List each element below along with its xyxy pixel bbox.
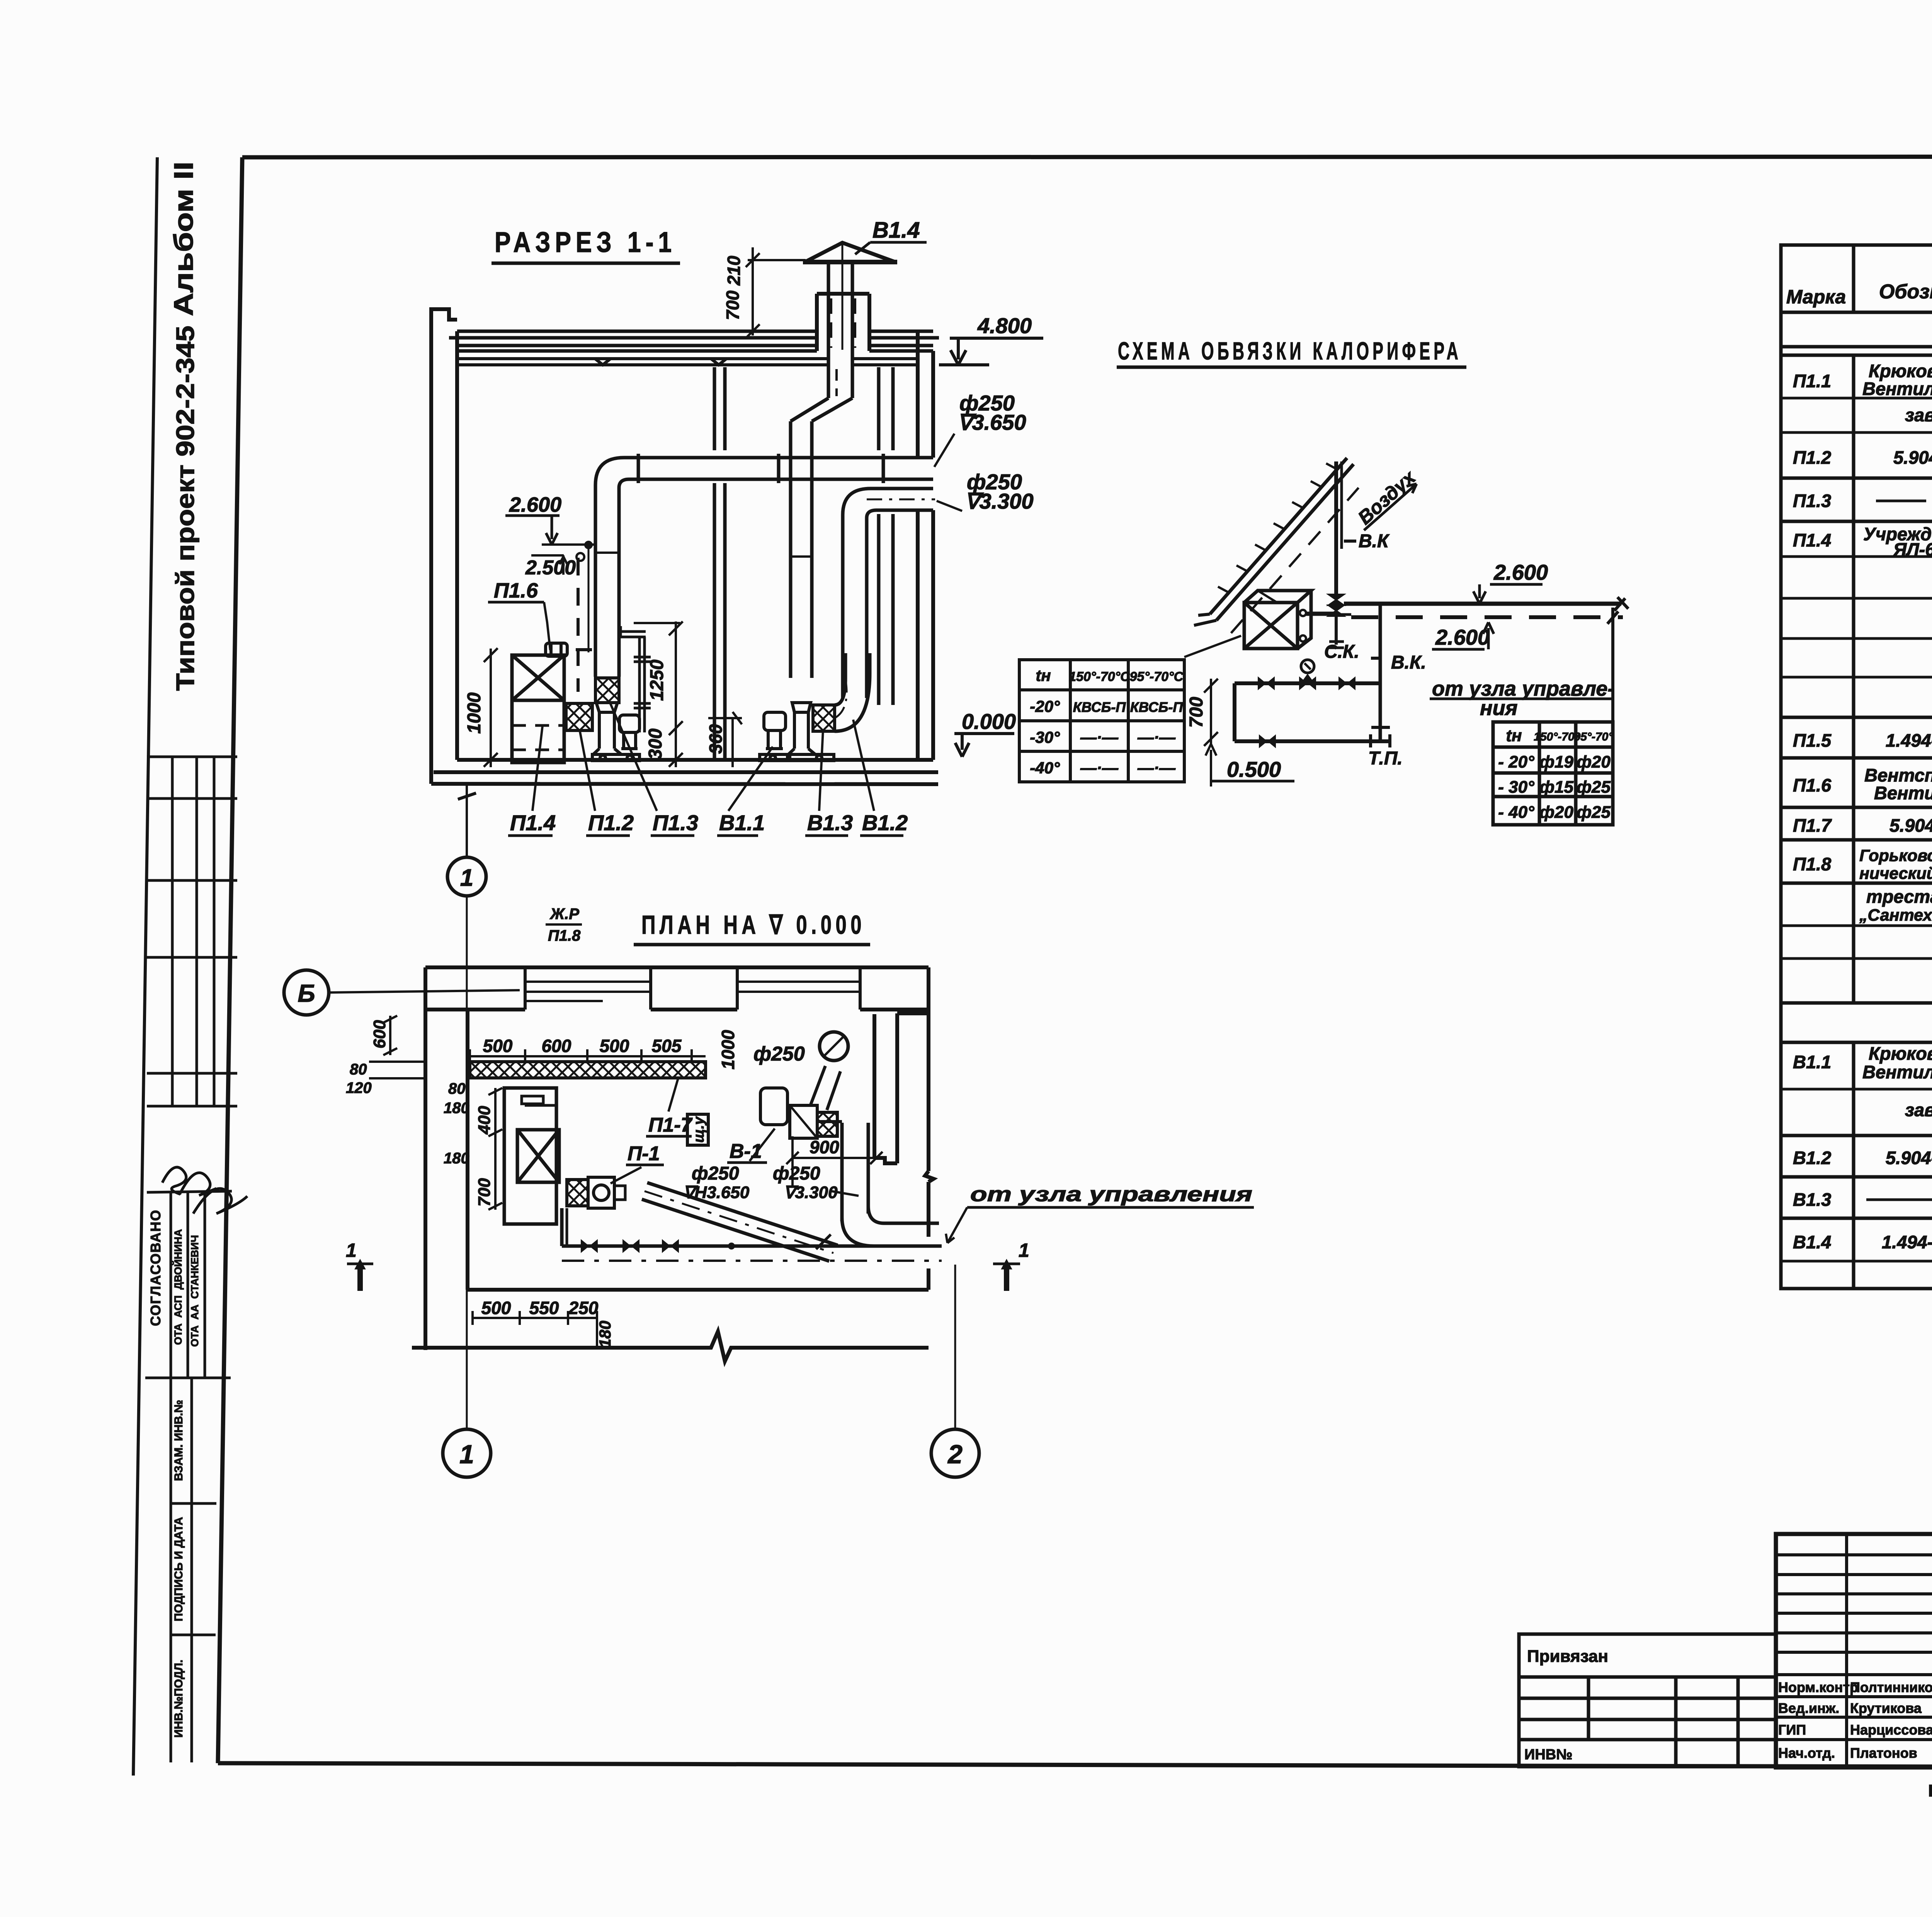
signature rows labels	[1778, 1679, 1932, 1761]
svg-text:щ.у: щ.у	[691, 1116, 707, 1143]
svg-text:360: 360	[706, 724, 726, 754]
axis circle 1	[447, 857, 486, 896]
corridor wall	[874, 1013, 929, 1163]
svg-text:180: 180	[444, 1150, 469, 1167]
svg-text:600: 600	[370, 1020, 389, 1049]
row В1.2	[1793, 1147, 1932, 1168]
svg-text:-20°: -20°	[1030, 697, 1060, 715]
svg-text:ОТА АСП ДВОЙНИНА: ОТА АСП ДВОЙНИНА	[172, 1229, 184, 1345]
diagonal duct	[642, 1183, 838, 1261]
svg-text:80: 80	[448, 1080, 466, 1097]
svg-text:1: 1	[1019, 1239, 1029, 1261]
svg-text:КВСБ-П: КВСБ-П	[1130, 699, 1184, 715]
axis line 1	[466, 897, 468, 1429]
slope hatch ticks	[1218, 463, 1337, 592]
svg-text:700: 700	[475, 1178, 494, 1207]
fan unit П1.1	[592, 703, 639, 761]
table leader	[1184, 636, 1241, 657]
svg-text:—·—: —·—	[1137, 728, 1176, 746]
frame top line	[242, 157, 1932, 157]
svg-text:Альбом II: Альбом II	[168, 162, 199, 316]
roof slab	[449, 331, 939, 351]
plan left wall	[425, 967, 468, 1350]
section mark left	[347, 1259, 373, 1291]
svg-text:250: 250	[568, 1298, 599, 1318]
title block outer	[1776, 1534, 1932, 1767]
section mark right	[993, 1259, 1020, 1291]
table heat selection	[1019, 660, 1184, 782]
svg-text:Привязан: Привязан	[1527, 1647, 1608, 1666]
svg-text:1000: 1000	[464, 692, 485, 734]
gauge circle	[1301, 660, 1314, 673]
row В1.4	[1793, 1231, 1932, 1252]
roof slope	[1194, 458, 1359, 633]
roof exhaust shaft casing	[817, 294, 869, 351]
pump П1.1 plan	[567, 1177, 625, 1208]
axis circle Б	[284, 970, 329, 1015]
unit П1.4 calorifer box	[512, 655, 564, 763]
svg-text:2: 2	[947, 1440, 963, 1469]
return pipe dashed	[1351, 615, 1623, 619]
svg-text:600: 600	[542, 1036, 571, 1056]
svg-text:П-1: П-1	[628, 1142, 660, 1165]
svg-text:95°-70°: 95°-70°	[1574, 730, 1614, 743]
svg-text:СОГЛАСОВАНО: СОГЛАСОВАНО	[148, 1209, 163, 1326]
row П1.1	[1793, 360, 1932, 399]
svg-text:нический з-д N1: нический з-д N1	[1859, 864, 1932, 883]
svg-text:от узла управле-: от узла управле-	[1432, 677, 1614, 700]
unit П-1 box	[504, 1088, 559, 1224]
svg-text:В1.3: В1.3	[807, 810, 853, 835]
row П1.8	[1793, 846, 1932, 883]
spec table grid	[1781, 245, 1932, 1289]
svg-text:Платонов: Платонов	[1850, 1745, 1917, 1761]
svg-text:ИНВ.№ПОДЛ.: ИНВ.№ПОДЛ.	[172, 1660, 185, 1738]
panel щ.у	[687, 1114, 708, 1145]
svg-text:180: 180	[596, 1321, 614, 1348]
svg-text:—·—: —·—	[1080, 728, 1119, 746]
svg-text:П1.2: П1.2	[588, 810, 634, 835]
duct elbow В1.2	[835, 653, 870, 731]
row П1.5	[1793, 729, 1932, 751]
svg-text:150°-70°: 150°-70°	[1534, 730, 1579, 743]
svg-text:ф20: ф20	[1539, 803, 1573, 822]
svg-text:ЯЛ-61/4: ЯЛ-61/4	[1893, 539, 1932, 560]
svg-text:900: 900	[810, 1137, 839, 1157]
svg-text:В1.2: В1.2	[1793, 1147, 1831, 1168]
svg-text:80: 80	[350, 1061, 367, 1078]
svg-text:ф25: ф25	[1577, 803, 1611, 822]
svg-text:П1.8: П1.8	[548, 927, 581, 944]
svg-text:tн: tн	[1506, 726, 1522, 745]
svg-text:2.500: 2.500	[525, 557, 576, 579]
svg-text:∇3.300: ∇3.300	[965, 489, 1034, 513]
svg-text:95°-70°С: 95°-70°С	[1130, 669, 1184, 684]
svg-text:В.К.: В.К.	[1391, 652, 1426, 673]
valves on upper line	[1258, 676, 1275, 690]
air valve П1.6	[546, 643, 592, 656]
svg-text:завод: завод	[1905, 1100, 1932, 1120]
svg-text:1.494-25: 1.494-25	[1886, 730, 1932, 751]
louvre lines in openings	[525, 982, 860, 1001]
svg-text:500: 500	[483, 1036, 513, 1056]
svg-text:завод: завод	[1905, 405, 1932, 425]
svg-text:∇3.300: ∇3.300	[784, 1183, 838, 1202]
svg-text:ПЛАН НА ∇ 0.000: ПЛАН НА ∇ 0.000	[641, 910, 866, 940]
row В1.1 cont	[1905, 1096, 1932, 1136]
svg-text:Горьковский меха-: Горьковский меха-	[1859, 846, 1932, 865]
svg-text:С.К.: С.К.	[1324, 642, 1359, 662]
heating pipes	[562, 1208, 942, 1261]
svg-text:5.904.5: 5.904.5	[1893, 447, 1932, 468]
svg-text:ф19: ф19	[1539, 752, 1573, 771]
frame left line	[218, 157, 242, 1763]
row треста	[1859, 886, 1932, 926]
hatched strip П1.7	[470, 1062, 706, 1078]
svg-text:Воздух: Воздух	[1354, 466, 1420, 529]
svg-text:Ж.Р: Ж.Р	[549, 906, 579, 923]
svg-text:505: 505	[652, 1036, 682, 1056]
svg-text:1250: 1250	[647, 659, 667, 701]
row П1.2	[1793, 446, 1932, 468]
tee Т.П.	[1371, 727, 1390, 747]
svg-text:П1.4: П1.4	[1793, 530, 1831, 550]
SPECTABLE	[1781, 212, 1932, 1289]
stamp table upper	[147, 757, 237, 1106]
signatures scribbles	[162, 1167, 247, 1214]
svg-text:∇3.650: ∇3.650	[957, 410, 1026, 434]
left wall	[431, 309, 457, 784]
svg-text:1000: 1000	[718, 1030, 738, 1069]
SCHEME	[1019, 337, 1628, 825]
svg-text:ОТА АА СТАНКЕВИЧ: ОТА АА СТАНКЕВИЧ	[189, 1235, 201, 1347]
frame bottom line	[218, 1763, 1932, 1768]
fan unit В1.1	[760, 703, 834, 761]
svg-text:Нач.отд.: Нач.отд.	[1778, 1745, 1835, 1761]
row П1.7	[1793, 814, 1932, 836]
TITLEBLOCK	[1519, 1534, 1932, 1803]
svg-text:В.К: В.К	[1359, 531, 1390, 552]
svg-text:1.494-32: 1.494-32	[1882, 1232, 1932, 1252]
svg-text:В1.3: В1.3	[1793, 1189, 1831, 1210]
dim 1000	[484, 648, 498, 767]
svg-text:180: 180	[444, 1100, 469, 1117]
svg-text:- 30°: - 30°	[1498, 778, 1534, 797]
flex insert В1.3	[813, 705, 835, 731]
duct stub to riser circle	[811, 1066, 840, 1110]
svg-text:В1.1: В1.1	[719, 810, 765, 835]
row В1.3	[1793, 1188, 1932, 1210]
svg-text:550: 550	[529, 1298, 559, 1318]
svg-text:ф20: ф20	[1577, 752, 1611, 771]
valves on heating pipes	[581, 1239, 598, 1253]
svg-text:П1.3: П1.3	[1793, 490, 1831, 511]
svg-text:500: 500	[481, 1298, 511, 1318]
bottom vertical stamp box	[171, 1378, 216, 1762]
svg-text:Т.П.: Т.П.	[1368, 748, 1403, 769]
svg-text:П1.4: П1.4	[510, 810, 556, 835]
svg-text:Б: Б	[298, 979, 315, 1007]
svg-text:КВСБ-П: КВСБ-П	[1073, 699, 1126, 715]
svg-text:П1.3: П1.3	[653, 810, 698, 835]
svg-text:—·—: —·—	[1080, 759, 1119, 777]
svg-text:В1.1: В1.1	[1793, 1052, 1831, 1072]
svg-text:СХЕМА ОБВЯЗКИ КАЛОРИФЕРА: СХЕМА ОБВЯЗКИ КАЛОРИФЕРА	[1118, 337, 1462, 365]
fan В-1 plan	[760, 1088, 837, 1138]
svg-text:-40°: -40°	[1030, 759, 1060, 777]
svg-text:tн: tн	[1036, 666, 1051, 684]
row П1.1 cont	[1905, 400, 1932, 438]
riser circle ф250	[820, 1032, 848, 1061]
svg-text:5.904-5: 5.904-5	[1889, 815, 1932, 836]
flex insert П1.3	[595, 678, 619, 703]
svg-text:500: 500	[600, 1036, 629, 1056]
floor slab	[431, 760, 938, 784]
Согласовано block grid	[145, 1191, 232, 1378]
dim row 500 600 500 505	[470, 1049, 706, 1063]
calorifer axon box	[1244, 591, 1311, 649]
heat piping lines	[1235, 683, 1390, 741]
svg-text:—·—: —·—	[1137, 759, 1176, 777]
vent pipe vertical	[1334, 461, 1338, 595]
connection dots	[1300, 610, 1306, 616]
axis line 2	[954, 1265, 956, 1429]
svg-text:В1.4: В1.4	[872, 218, 920, 243]
svg-text:П1.6: П1.6	[494, 579, 538, 602]
svg-text:„Сантехдеталь“: „Сантехдеталь“	[1859, 906, 1932, 924]
outer thin left line	[133, 157, 157, 1776]
leader labels bottom	[532, 700, 874, 811]
svg-text:ф250: ф250	[692, 1163, 739, 1184]
svg-text:-30°: -30°	[1030, 728, 1060, 746]
right wall	[918, 331, 933, 760]
valve on lower line	[1259, 734, 1276, 748]
svg-text:П1.1: П1.1	[1793, 371, 1831, 391]
svg-text:ГИП: ГИП	[1778, 1722, 1806, 1738]
dashed axis П1.6	[577, 558, 580, 692]
exhaust riser B1	[791, 262, 852, 678]
svg-text:1: 1	[346, 1239, 357, 1261]
svg-text:П1.6: П1.6	[1793, 775, 1832, 795]
svg-text:Вентиляторный: Вентиляторный	[1862, 378, 1932, 399]
row П1.6	[1793, 765, 1932, 803]
svg-text:Копировал: Каршунова: Копировал: Каршунова	[1928, 1781, 1932, 1800]
svg-text:В1.4: В1.4	[1793, 1232, 1831, 1252]
dim 700	[1204, 679, 1218, 746]
left mini grid	[1776, 1534, 1932, 1767]
supply pipe to control	[1306, 612, 1336, 615]
svg-text:ВЗАМ. ИНВ.№: ВЗАМ. ИНВ.№	[172, 1400, 185, 1481]
svg-text:0.500: 0.500	[1227, 757, 1281, 781]
axis circle 1 bottom	[443, 1429, 491, 1477]
dim 360	[708, 712, 742, 767]
plan top wall	[425, 967, 929, 1010]
svg-text:2.600: 2.600	[509, 493, 561, 516]
table texts	[1030, 666, 1184, 777]
vertical duct В1 plan	[817, 1122, 939, 1246]
svg-text:Марка: Марка	[1786, 286, 1846, 308]
svg-text:ф25: ф25	[1577, 778, 1611, 797]
pipe right end and riser	[1611, 608, 1614, 722]
svg-text:5.904-5: 5.904-5	[1886, 1147, 1932, 1168]
svg-text:150°-70°С: 150°-70°С	[1069, 669, 1130, 684]
svg-text:РАЗРЕЗ 1-1: РАЗРЕЗ 1-1	[495, 226, 676, 258]
svg-text:П1.5: П1.5	[1793, 730, 1832, 751]
LEFTMARGIN	[145, 162, 247, 1762]
drop pipe to tee	[1379, 605, 1382, 741]
duct ф250 3.650	[595, 454, 933, 677]
svg-text:400: 400	[475, 1106, 494, 1135]
svg-text:ф250: ф250	[773, 1163, 820, 1184]
svg-text:- 20°: - 20°	[1498, 752, 1534, 771]
svg-text:Типовой проект 902-2-345: Типовой проект 902-2-345	[171, 326, 199, 691]
interior wall left	[714, 367, 725, 760]
svg-text:1: 1	[459, 1440, 474, 1469]
plan bottom wall	[412, 1290, 929, 1361]
svg-text:П1.7: П1.7	[1793, 815, 1832, 836]
svg-text:Вентил. з-д: Вентил. з-д	[1874, 783, 1932, 803]
duct ф250 3.300	[843, 489, 935, 698]
svg-text:∇Н3.650: ∇Н3.650	[683, 1183, 750, 1202]
row П1.3	[1793, 490, 1932, 511]
svg-text:Обозначения: Обозначения	[1879, 281, 1932, 303]
water pipes at П1.1	[621, 626, 651, 732]
svg-text:Вентиляторный: Вентиляторный	[1862, 1062, 1932, 1082]
axis circle 2 bottom	[931, 1429, 979, 1477]
svg-text:Норм.контр: Норм.контр	[1778, 1679, 1858, 1695]
ceiling slab	[457, 359, 918, 365]
valve on vent pipe	[1328, 594, 1344, 616]
row В1.1	[1793, 1042, 1932, 1082]
svg-text:от узла управления: от узла управления	[970, 1183, 1252, 1206]
svg-text:ПОДПИСЬ И ДАТА: ПОДПИСЬ И ДАТА	[172, 1517, 185, 1621]
svg-text:120: 120	[346, 1079, 372, 1096]
svg-text:П1.8: П1.8	[1793, 854, 1832, 874]
row П1.4	[1793, 524, 1932, 560]
svg-text:700: 700	[723, 290, 743, 320]
svg-text:- 40°: - 40°	[1498, 803, 1534, 822]
svg-text:700: 700	[1186, 697, 1207, 728]
svg-text:В1.2: В1.2	[862, 810, 908, 835]
flex insert П1.2	[566, 703, 592, 730]
dim row 500 550 250	[473, 1311, 597, 1347]
svg-text:0.000: 0.000	[962, 709, 1016, 734]
dim 700 210	[746, 247, 806, 338]
svg-text:ф250: ф250	[753, 1043, 805, 1065]
SECTION	[431, 218, 1043, 896]
roof cap зонт В1.4	[805, 243, 895, 262]
plan right wall	[925, 967, 934, 1290]
svg-text:Полтинникова: Полтинникова	[1850, 1679, 1932, 1695]
svg-text:2.600: 2.600	[1493, 560, 1548, 584]
svg-text:Крутикова: Крутикова	[1850, 1700, 1922, 1716]
annex table Привязан	[1519, 1634, 1776, 1767]
svg-text:ф15: ф15	[1539, 778, 1573, 797]
svg-text:300: 300	[645, 729, 666, 759]
svg-text:П1.2: П1.2	[1793, 447, 1831, 468]
table pipe diameters	[1493, 722, 1613, 825]
svg-text:2.600: 2.600	[1435, 625, 1490, 649]
PLAN	[284, 897, 1254, 1477]
svg-text:треста: треста	[1866, 886, 1932, 907]
svg-text:Вед.инж.: Вед.инж.	[1778, 1700, 1839, 1716]
svg-text:Нарциссова: Нарциссова	[1850, 1722, 1932, 1738]
svg-text:1: 1	[460, 865, 473, 891]
svg-text:210: 210	[724, 255, 744, 286]
interior wall right	[879, 367, 893, 705]
dim 1250 300	[634, 621, 683, 767]
svg-text:4.800: 4.800	[977, 313, 1032, 338]
svg-text:ИНВ№: ИНВ№	[1524, 1747, 1573, 1763]
svg-text:Крюковский: Крюковский	[1869, 1043, 1932, 1064]
